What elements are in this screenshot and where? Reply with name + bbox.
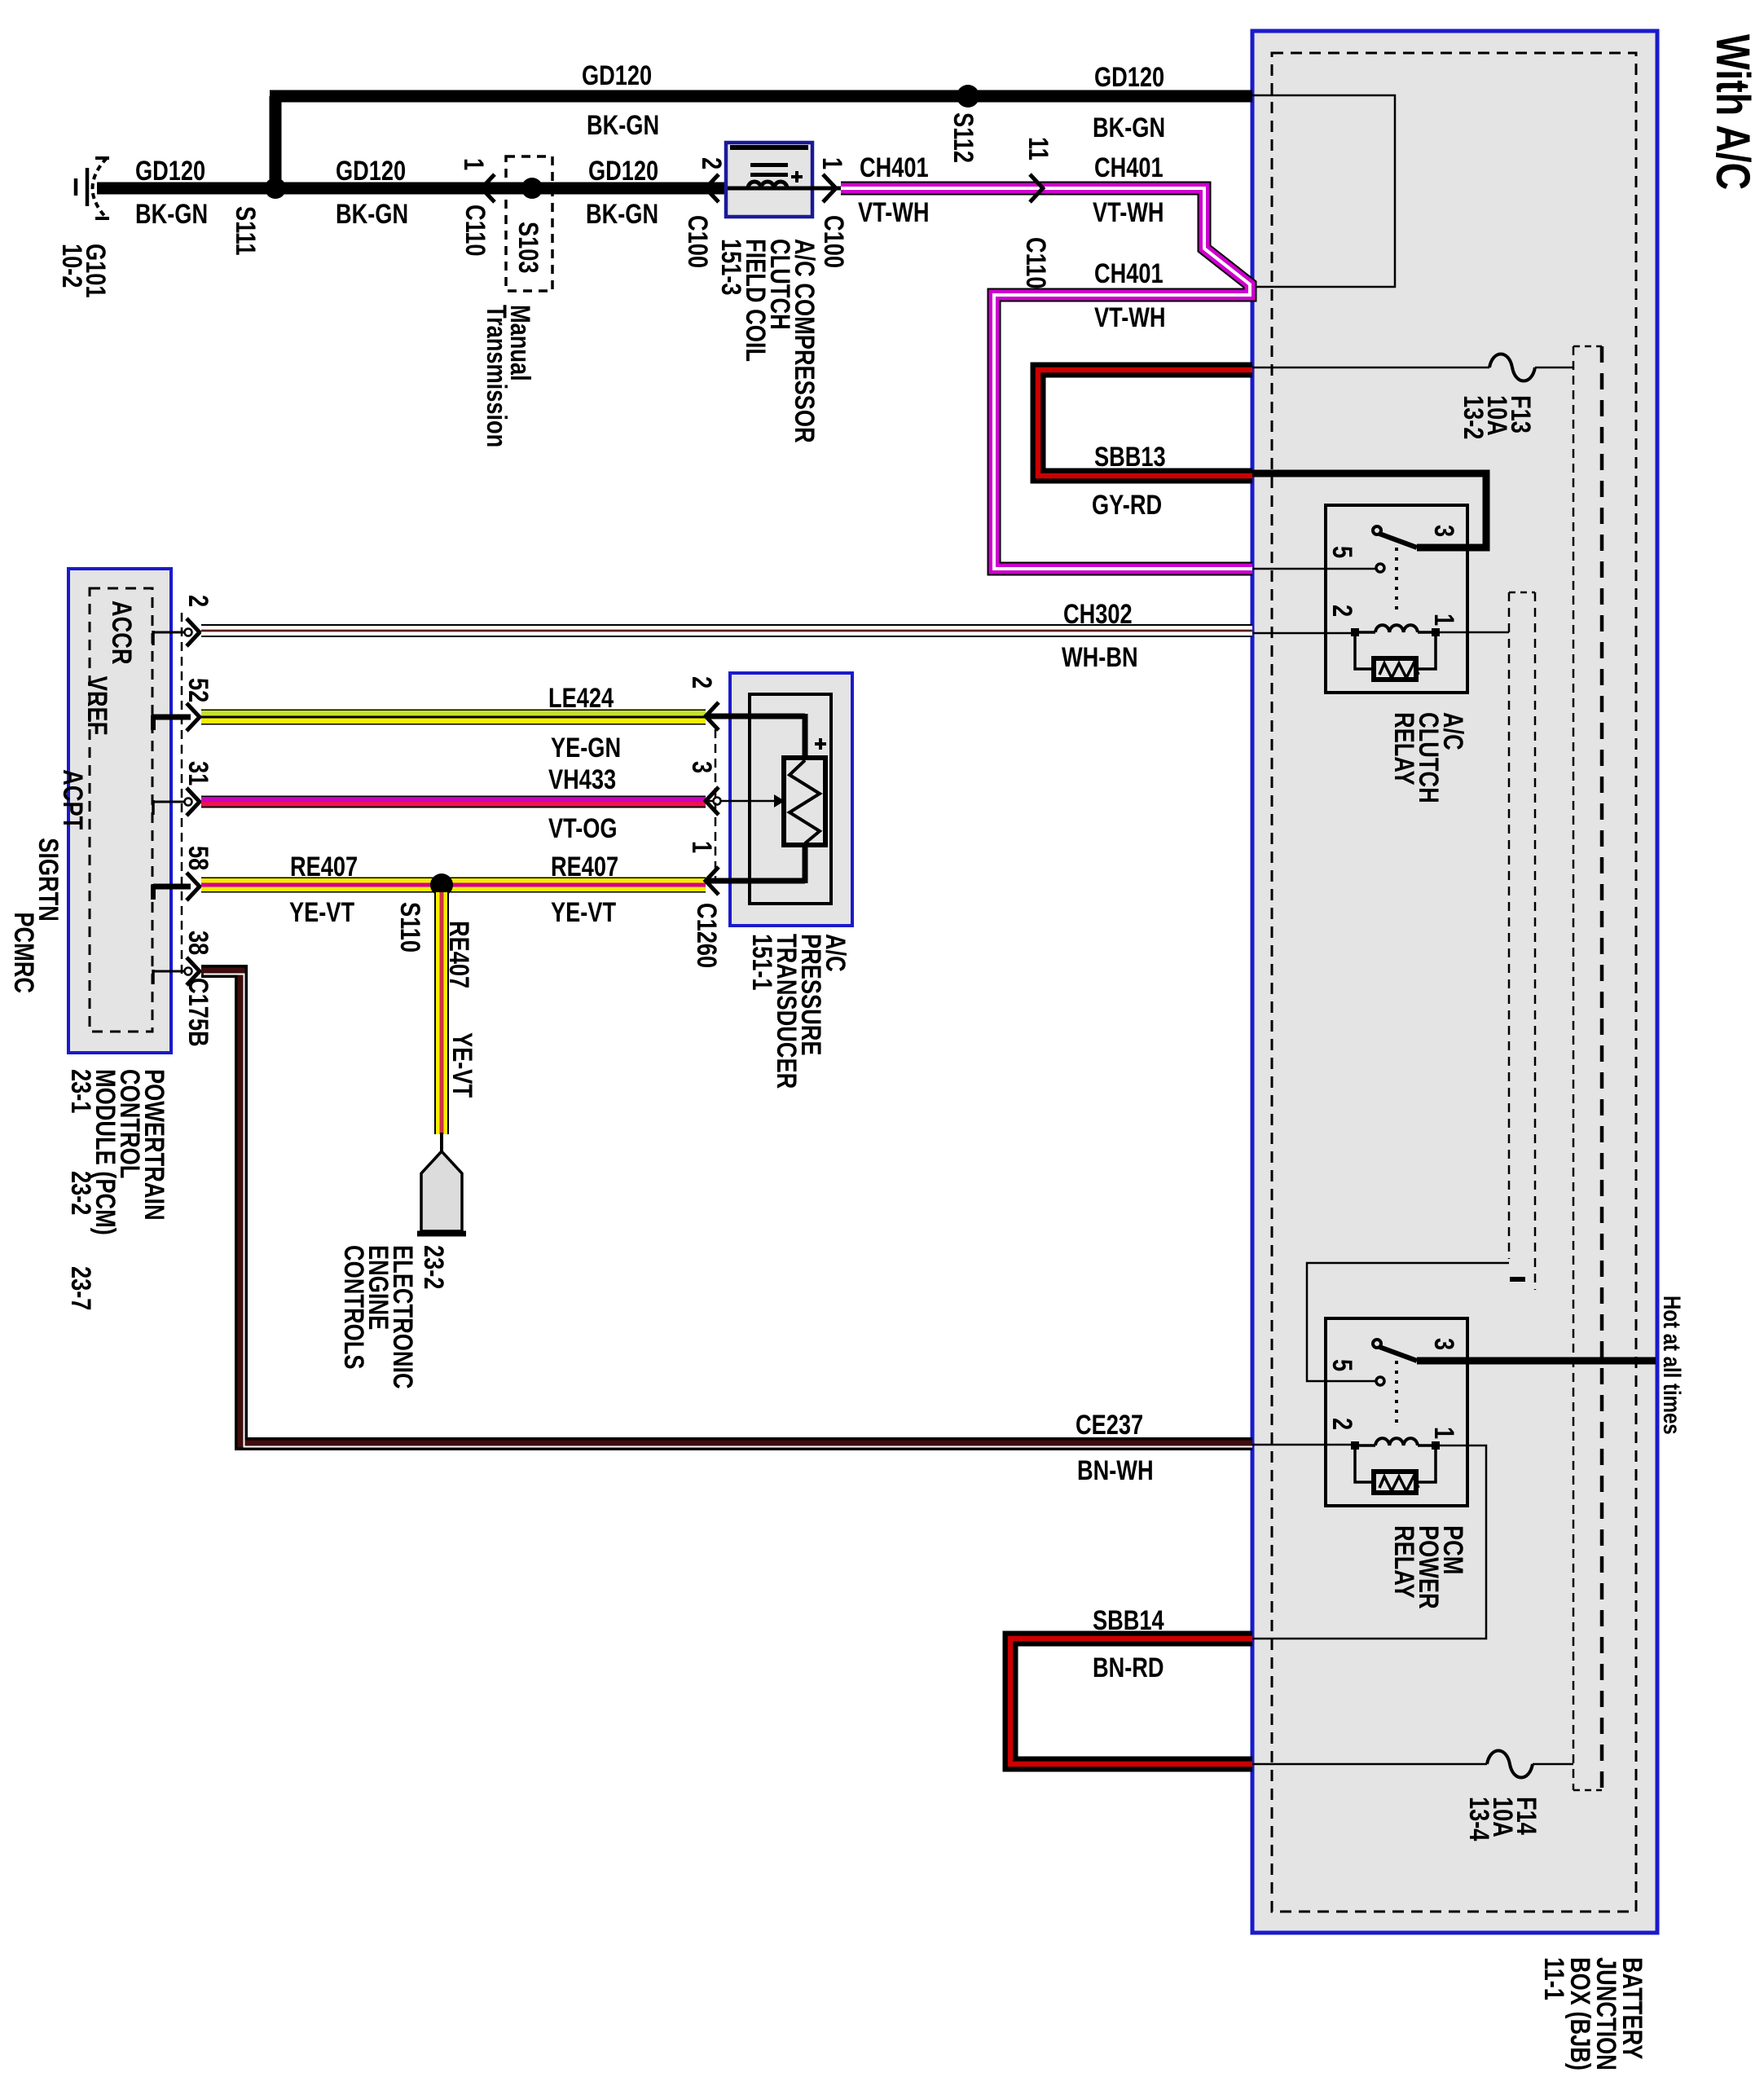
svg-text:GD120: GD120 [135, 155, 205, 187]
PCM power relay pin 3 label [1428, 1338, 1460, 1350]
svg-text:3: 3 [686, 761, 718, 773]
label GD120 segment 3 [588, 155, 658, 187]
label ELECTRONIC ENGINE CONTROLS [338, 1245, 419, 1389]
svg-text:YE-VT: YE-VT [551, 896, 616, 928]
svg-text:With A/C: With A/C [1706, 34, 1759, 190]
wire CE237 BN-WH PCM pin 38 to PCM power relay [201, 971, 1252, 1444]
connector C110 pin 1 arrow [482, 174, 495, 202]
label C1260 [691, 903, 723, 968]
component A/C pressure transducer box [730, 673, 852, 926]
label BK-GN top rail right [1093, 112, 1165, 143]
PCM power relay pin 5 label [1326, 1359, 1358, 1371]
fuse strip dashed bottom [1573, 1789, 1602, 1792]
label PCM pin functions ACCR VREF ACPT SIGRTN PCMRC [8, 601, 138, 993]
svg-text:GD120: GD120 [336, 155, 406, 187]
svg-text:VT-WH: VT-WH [1094, 301, 1166, 333]
svg-text:VH433: VH433 [548, 763, 616, 795]
svg-text:23-7: 23-7 [65, 1266, 97, 1310]
svg-text:151-1: 151-1 [746, 934, 778, 991]
transducer return wire pin 1 [803, 845, 808, 883]
label LE424 [548, 682, 614, 714]
label C110 compressor side [1020, 237, 1052, 288]
label pin 11 at C110 [1023, 137, 1054, 161]
label GD120 top rail right [1094, 61, 1164, 93]
wire field coil pin 1 stub [812, 187, 842, 191]
label GD120 segment 2 [336, 155, 406, 187]
relay link strip bottom tick [1510, 1277, 1525, 1282]
label GD120 top rail left [582, 59, 652, 91]
label S110 [394, 902, 426, 953]
transducer wiper pin 3 [707, 800, 774, 803]
label RE407 right [551, 851, 618, 882]
transducer inner outline [750, 694, 831, 904]
svg-text:S111: S111 [230, 206, 262, 255]
label CH401 segment 3 [1094, 257, 1164, 289]
relay link dashed strip right [1534, 592, 1537, 1290]
wire CH401 VT-WH from field coil to BJB and loop to A/C clutch relay pin 5 [841, 188, 1252, 569]
wire A/C clutch relay pin 3 to SBB13 [1252, 473, 1486, 548]
label C175B [183, 978, 214, 1047]
svg-text:3: 3 [1428, 525, 1460, 537]
wire A/C clutch relay pin 5 to CH401 [1252, 568, 1376, 570]
label BN-WH [1077, 1454, 1154, 1486]
connector C110 pin 11 arrow [1030, 174, 1043, 202]
svg-text:VT-WH: VT-WH [1093, 196, 1164, 228]
svg-text:38: 38 [183, 931, 214, 955]
svg-text:GY-RD: GY-RD [1092, 489, 1162, 521]
svg-text:13-4: 13-4 [1463, 1797, 1495, 1841]
splice S103 dashed box [506, 156, 552, 291]
label A/C COMPRESSOR CLUTCH FIELD COIL 151-3 [715, 239, 820, 443]
fuse F14 [1487, 1751, 1533, 1778]
connector C100 pin 1 arrow [823, 174, 836, 202]
wire VH433 VT-OG PCM pin 31 to transducer pin 3 [201, 796, 706, 808]
label 23-2 off-page [418, 1245, 450, 1289]
svg-text:C110: C110 [460, 205, 491, 256]
BJB internal link GD120 to CH401 entry [1252, 95, 1395, 287]
label PCM pin 38 [183, 931, 214, 955]
wire GD120 ground rail [97, 183, 726, 195]
label BATTERY JUNCTION BOX (BJB) 11-1 [1538, 1957, 1648, 2070]
svg-text:SIGRTN: SIGRTN [33, 838, 64, 922]
label SBB13 [1094, 441, 1166, 473]
PCM pin 52 arrow [187, 703, 200, 731]
label Manual Transmission [481, 305, 536, 447]
PCM pin 58 arrow [187, 873, 200, 900]
svg-text:CONTROLS: CONTROLS [338, 1245, 370, 1370]
svg-text:C110: C110 [1020, 237, 1052, 288]
svg-text:RELAY: RELAY [1388, 712, 1420, 785]
title With A/C [1706, 34, 1759, 190]
svg-text:RELAY: RELAY [1388, 1525, 1420, 1599]
relay link dashed strip top [1509, 592, 1535, 594]
svg-text:BK-GN: BK-GN [1093, 112, 1165, 143]
label VT-WH segment 2 [1093, 196, 1164, 228]
label BK-GN segment 1 [135, 198, 208, 230]
label Hot at all times [1658, 1296, 1686, 1435]
label VH433 [548, 763, 616, 795]
svg-text:2: 2 [696, 157, 728, 169]
label C100 left [682, 215, 714, 268]
svg-text:5: 5 [1326, 1359, 1358, 1371]
wire GD120 riser at S111 [270, 96, 282, 194]
A/C clutch relay pin 3 label [1428, 525, 1460, 537]
label PCM pin 58 [183, 846, 214, 870]
PCM pin 31 arrow [187, 788, 200, 816]
label S111 [230, 206, 262, 255]
label PCM POWER RELAY [1388, 1525, 1469, 1609]
connector C100 pin 2 arrow [706, 174, 719, 202]
svg-text:ACCR: ACCR [106, 601, 138, 665]
label VT-WH segment 1 [858, 196, 930, 228]
wire PCM power relay coil pin 2 to CE237 [1252, 1444, 1354, 1446]
svg-text:23-2: 23-2 [65, 1171, 97, 1215]
relay K1 A/C clutch relay [1326, 505, 1467, 693]
svg-text:11-1: 11-1 [1538, 1957, 1570, 2000]
svg-text:BN-RD: BN-RD [1093, 1652, 1164, 1683]
off-page connector to electronic engine controls [421, 1151, 462, 1231]
svg-text:Transmission: Transmission [481, 305, 512, 447]
label BN-RD [1093, 1652, 1164, 1683]
wire A/C clutch relay coil pin 1 to link strip [1435, 631, 1509, 634]
svg-text:10-2: 10-2 [56, 244, 88, 288]
svg-text:PCMRC: PCMRC [8, 912, 40, 993]
PCM pin 58 stub [153, 884, 191, 890]
label POWERTRAIN CONTROL MODULE (PCM) [65, 1069, 170, 1235]
label transducer pin 3 [686, 761, 718, 773]
label SBB14 [1093, 1604, 1164, 1636]
svg-text:Hot at all times: Hot at all times [1658, 1296, 1686, 1435]
svg-text:CH302: CH302 [1063, 598, 1133, 630]
transducer sense resistor [784, 758, 825, 845]
label RE407 vertical [443, 921, 475, 988]
svg-text:BK-GN: BK-GN [135, 198, 208, 230]
svg-text:BK-GN: BK-GN [586, 198, 658, 230]
wire SBB13 GY-RD fuse F13 to relay pin 3 [1038, 370, 1252, 476]
svg-text:VT-WH: VT-WH [858, 196, 930, 228]
label VT-WH segment 3 [1094, 301, 1166, 333]
svg-text:1: 1 [1428, 1427, 1460, 1439]
battery junction box (BJB) outline [1252, 31, 1657, 1933]
svg-text:BK-GN: BK-GN [587, 109, 659, 141]
svg-text:2: 2 [183, 595, 214, 607]
A/C clutch relay pin 1 label [1428, 614, 1460, 626]
label G101 10-2 [56, 244, 112, 297]
label A/C CLUTCH RELAY [1388, 712, 1469, 803]
PCM pin 38 stub [153, 970, 191, 973]
svg-text:52: 52 [183, 678, 214, 702]
field coil plus sign [791, 175, 803, 178]
BJB inner dashed border [1272, 53, 1636, 1912]
wire PCM power relay coil pin 1 to SBB14 [1252, 1445, 1486, 1639]
label YE-VT left [289, 896, 354, 928]
field coil winding [728, 187, 812, 191]
label RE407 left [290, 851, 358, 882]
transducer pin 1 arrow [706, 867, 719, 895]
svg-text:LE424: LE424 [548, 682, 614, 714]
label YE-GN [551, 732, 621, 763]
fuse strip dashed right edge (hot bus) [1600, 346, 1604, 1790]
svg-text:RE407: RE407 [551, 851, 618, 882]
wire LE424 YE-GN PCM pin 52 to transducer pin 2 [201, 710, 706, 725]
wire SBB13 feed inside BJB to fuse F13 [1252, 367, 1489, 369]
transducer plus sign [815, 742, 826, 746]
fuse strip dashed top [1573, 345, 1602, 348]
label pin 1 at C100 right [816, 157, 848, 169]
component A/C compressor clutch field coil box [726, 143, 812, 217]
PCM power relay pin 1 label [1428, 1427, 1460, 1439]
label transducer pin 2 [686, 676, 718, 689]
svg-text:2: 2 [1326, 605, 1358, 617]
svg-text:11: 11 [1023, 137, 1054, 161]
field coil core bars [750, 163, 788, 167]
svg-text:2: 2 [1326, 1418, 1358, 1430]
svg-text:CH401: CH401 [860, 152, 929, 183]
wire GD120 top rail [270, 90, 1252, 103]
svg-text:58: 58 [183, 846, 214, 870]
label WH-BN [1062, 641, 1138, 673]
A/C clutch relay pin 5 label [1326, 546, 1358, 558]
transducer pin 2 arrow [706, 702, 719, 730]
svg-text:3: 3 [1428, 1338, 1460, 1350]
wire RE407 vertical to electronic engine controls [434, 885, 449, 1134]
PCM pin 2 arrow [187, 618, 200, 646]
label S103 [512, 222, 544, 273]
svg-text:SBB13: SBB13 [1094, 441, 1166, 473]
svg-text:C1260: C1260 [691, 903, 723, 968]
wire PCM power relay pin 3 to hot bus [1417, 1357, 1656, 1365]
svg-text:2: 2 [686, 676, 718, 689]
label S112 [948, 112, 979, 163]
svg-text:RE407: RE407 [290, 851, 358, 882]
PCM pin 31 stub [153, 801, 191, 803]
svg-text:13-2: 13-2 [1458, 395, 1489, 439]
wire taper to off-page connector [440, 1133, 443, 1154]
label BK-GN top rail left [587, 109, 659, 141]
label pin 2 at C100 [696, 157, 728, 169]
A/C clutch relay pin 2 label [1326, 605, 1358, 617]
label YE-VT right [551, 896, 616, 928]
svg-text:23-1: 23-1 [65, 1069, 97, 1113]
svg-text:RE407: RE407 [443, 921, 475, 988]
wire SBB14 BN-RD PCM power relay to fuse F14 [1010, 1639, 1252, 1764]
svg-text:CH401: CH401 [1094, 257, 1164, 289]
svg-text:YE-GN: YE-GN [551, 732, 621, 763]
label YE-VT vertical [446, 1032, 478, 1098]
svg-text:151-3: 151-3 [715, 239, 747, 296]
svg-text:1: 1 [1428, 614, 1460, 626]
label GD120 segment 1 [135, 155, 205, 187]
PCM inner dashed outline [90, 588, 152, 1032]
label BK-GN segment 3 [586, 198, 658, 230]
svg-text:VREF: VREF [81, 676, 113, 735]
svg-text:GD120: GD120 [1094, 61, 1164, 93]
svg-text:1: 1 [816, 157, 848, 169]
label F13 10A 13-2 [1458, 395, 1537, 439]
svg-text:1: 1 [458, 158, 490, 170]
svg-text:S112: S112 [948, 112, 979, 163]
svg-text:CE237: CE237 [1076, 1409, 1143, 1441]
svg-text:1: 1 [686, 841, 718, 853]
label PCM pin 2 [183, 595, 214, 607]
svg-text:ACPT: ACPT [57, 769, 89, 829]
label C100 right [818, 215, 850, 268]
fuse strip dashed left edge [1573, 346, 1575, 1790]
component powertrain control module connector [68, 569, 171, 1053]
label VT-OG [548, 812, 618, 844]
svg-text:C175B: C175B [183, 978, 214, 1047]
svg-text:GD120: GD120 [582, 59, 652, 91]
svg-text:YE-VT: YE-VT [289, 896, 354, 928]
ground G101 symbol [93, 158, 108, 218]
label BK-GN segment 2 [336, 198, 408, 230]
wire PCM power relay pin 5 to link strip [1307, 1263, 1509, 1381]
svg-text:SBB14: SBB14 [1093, 1604, 1164, 1636]
PCM pin 38 arrow [187, 957, 200, 985]
transducer pin 3 arrow [706, 787, 719, 815]
junction S112 [957, 85, 979, 108]
junction S110 [430, 873, 453, 896]
svg-text:BN-WH: BN-WH [1077, 1454, 1154, 1486]
fuse F13 [1489, 354, 1535, 381]
connector C175B dashed line [181, 613, 183, 976]
PCM power relay pin 2 label [1326, 1418, 1358, 1430]
label pin 1 at C110 [458, 158, 490, 170]
svg-text:GD120: GD120 [588, 155, 658, 187]
label F14 10A 13-4 [1463, 1797, 1542, 1841]
wire SBB14 feed inside BJB to fuse F14 [1252, 1763, 1487, 1766]
relay link dashed strip left [1508, 592, 1511, 1259]
wire CH302 WH-BN PCM pin 2 to relay coil [201, 624, 1252, 637]
label C110 ground side [460, 205, 491, 256]
label CH401 segment 1 [860, 152, 929, 183]
connector C1260 dashed line [715, 729, 717, 878]
svg-text:YE-VT: YE-VT [446, 1032, 478, 1098]
svg-text:WH-BN: WH-BN [1062, 641, 1138, 673]
svg-text:5: 5 [1326, 546, 1358, 558]
svg-text:C100: C100 [818, 215, 850, 268]
transducer feed wire pin 2 [707, 714, 805, 719]
svg-text:CH401: CH401 [1094, 152, 1164, 183]
label PCM pin 31 [183, 761, 214, 785]
junction S111 [265, 178, 286, 199]
label CH401 segment 2 [1094, 152, 1164, 183]
PCM pin 52 stub [153, 715, 191, 720]
label GY-RD [1092, 489, 1162, 521]
svg-text:S103: S103 [512, 222, 544, 273]
relay K2 PCM power relay [1326, 1318, 1467, 1506]
svg-text:BK-GN: BK-GN [336, 198, 408, 230]
label transducer pin 1 [686, 841, 718, 853]
PCM pin 2 stub [153, 631, 191, 634]
svg-text:31: 31 [183, 761, 214, 785]
label CH302 [1063, 598, 1133, 630]
wire A/C clutch relay coil pin 2 to CH302 [1252, 632, 1354, 635]
label A/C PRESSURE TRANSDUCER 151-1 [746, 934, 851, 1089]
wire RE407 YE-VT PCM pin 58 to transducer pin 1 [201, 878, 706, 893]
junction S103 [521, 178, 543, 199]
svg-text:VT-OG: VT-OG [548, 812, 618, 844]
svg-text:S110: S110 [394, 902, 426, 953]
label CE237 [1076, 1409, 1143, 1441]
svg-text:23-2: 23-2 [418, 1245, 450, 1289]
label PCM pin 52 [183, 678, 214, 702]
svg-text:C100: C100 [682, 215, 714, 268]
